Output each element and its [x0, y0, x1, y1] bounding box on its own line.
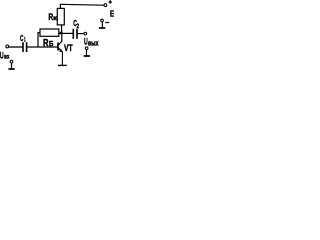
svg-text:вх: вх [4, 54, 10, 61]
svg-text:вых: вых [88, 40, 99, 47]
svg-text:C: C [20, 34, 24, 43]
svg-text:Б: Б [49, 39, 54, 48]
svg-text:E: E [110, 9, 114, 19]
svg-text:1: 1 [24, 37, 26, 44]
svg-text:2: 2 [77, 23, 80, 30]
svg-text:VT: VT [64, 43, 73, 53]
